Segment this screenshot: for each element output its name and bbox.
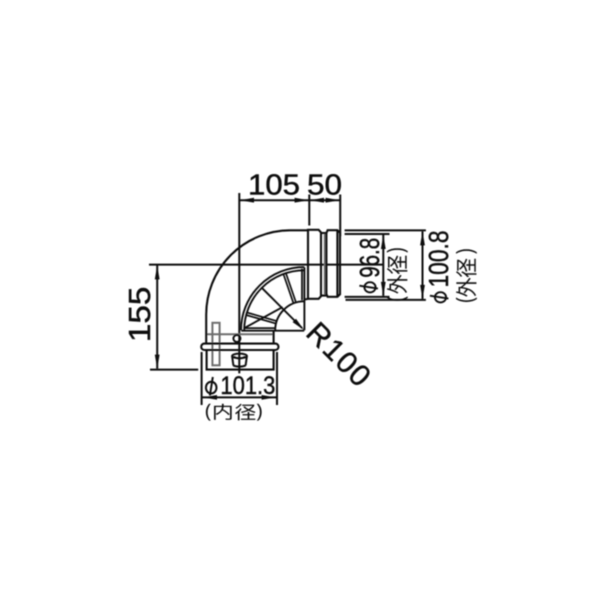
svg-text:50: 50: [307, 169, 342, 201]
svg-text:105: 105: [248, 169, 300, 201]
svg-text:100.8: 100.8: [423, 231, 454, 288]
svg-text:96.8: 96.8: [354, 238, 385, 278]
svg-text:101.3: 101.3: [220, 372, 275, 400]
svg-text:155: 155: [122, 287, 157, 343]
